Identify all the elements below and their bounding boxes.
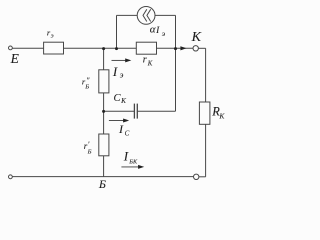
- svg-text:Б: Б: [98, 177, 106, 191]
- svg-text:э: э: [162, 29, 166, 38]
- svg-text:α: α: [150, 24, 156, 36]
- svg-text:I: I: [155, 26, 160, 36]
- svg-text:I: I: [123, 149, 129, 164]
- svg-text:I: I: [118, 122, 124, 136]
- svg-text:Б: Б: [84, 84, 89, 91]
- svg-text:r: r: [143, 55, 147, 66]
- svg-text:К: К: [147, 61, 153, 68]
- svg-text:E: E: [10, 51, 20, 66]
- svg-text:э: э: [51, 33, 54, 40]
- svg-text:I: I: [112, 64, 118, 79]
- svg-text:БК: БК: [128, 158, 138, 165]
- svg-text:э: э: [120, 71, 124, 80]
- svg-text:К: К: [120, 97, 127, 105]
- svg-text:Б: Б: [87, 148, 92, 155]
- svg-text:К: К: [191, 30, 202, 45]
- svg-text:С: С: [125, 129, 130, 137]
- svg-text:К: К: [218, 111, 225, 120]
